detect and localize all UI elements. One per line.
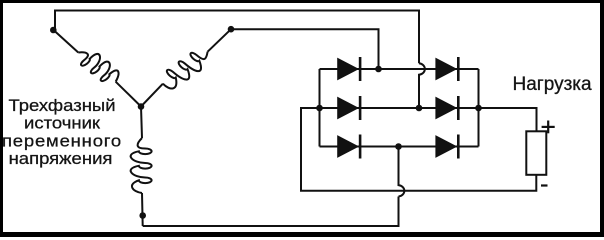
inductor L3 (phase 3 winding): [131, 138, 152, 193]
wire: phase-2 lead node B to coil L2: [208, 29, 231, 52]
wire: star center to coil L3: [141, 107, 142, 139]
wire: right bus of bridge: [478, 69, 480, 147]
wire: coil L2 to star center: [141, 84, 163, 107]
wire: top phase-1 line from node A up and right to vertical drop: [55, 11, 419, 64]
wire: hop over return wire then up to row3 center: [399, 147, 405, 197]
wire: phase-2 line from node B to row1 center: [231, 29, 379, 69]
node N (star center): [138, 103, 145, 110]
label: three-phase source text: [0, 97, 124, 167]
wire: row1 horizontal: [320, 68, 479, 70]
node B (phase 2 terminal): [228, 26, 235, 33]
junction row3 center: [395, 143, 402, 150]
junction row2 center: [416, 105, 423, 112]
node A (phase 1 terminal): [50, 27, 57, 34]
label: load text: [513, 75, 592, 95]
wire: row2 horizontal: [320, 107, 479, 109]
junction row2 left bus: [316, 105, 323, 112]
junction row2 right bus: [475, 105, 482, 112]
wire: bottom run node C to riser x=398.5: [143, 197, 399, 227]
wire: positive feed right bus to load top: [479, 108, 537, 131]
inductor L1 (phase 1 winding): [78, 52, 118, 81]
wire: negative return from load bottom to left bus: [301, 108, 536, 191]
wire: row3 horizontal: [320, 146, 479, 148]
diode VD1: [338, 59, 358, 80]
diode VD5: [338, 136, 358, 157]
wire: coil L3 to node C: [141, 193, 144, 226]
wire: coil L1 to star center: [116, 82, 141, 107]
plus terminal mark: [542, 121, 555, 134]
node C (phase 3 terminal): [139, 212, 146, 219]
diode VD6: [436, 136, 456, 157]
wire: hop over row1 then down to row2 center: [419, 63, 425, 108]
inductor L2 (phase 2 winding): [163, 52, 208, 89]
diode VD3: [338, 98, 358, 119]
junction row1 center: [375, 66, 382, 73]
wire: left bus of bridge: [319, 69, 321, 147]
diode VD4: [436, 98, 456, 119]
load resistor R: [526, 131, 546, 175]
minus terminal mark: [541, 184, 548, 186]
diode VD2: [436, 59, 456, 80]
wire: phase-1 lead node A to coil L1: [54, 30, 79, 53]
